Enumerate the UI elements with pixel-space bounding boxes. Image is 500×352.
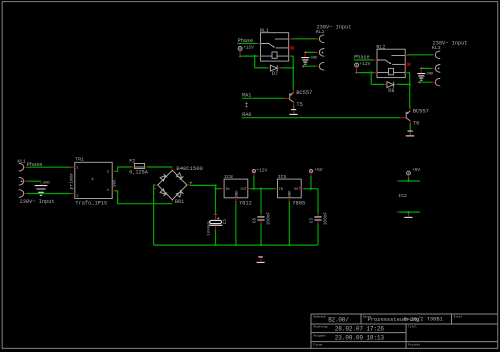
svg-text:T5: T5: [296, 102, 302, 108]
svg-text:T6: T6: [413, 121, 419, 127]
svg-text:230V~ Input: 230V~ Input: [20, 199, 55, 205]
svg-text:Phase: Phase: [354, 54, 370, 60]
svg-text:Trafo_1P1S: Trafo_1P1S: [75, 201, 107, 207]
svg-text:F2: F2: [129, 159, 135, 165]
svg-text:GND: GND: [311, 57, 319, 61]
svg-text:7812: 7812: [239, 201, 252, 207]
svg-text:sek.: sek.: [112, 177, 117, 187]
svg-text:+5V: +5V: [314, 167, 323, 173]
svg-text:IN: IN: [279, 188, 283, 192]
svg-text:1000uF: 1000uF: [207, 221, 211, 236]
svg-text:BR1: BR1: [175, 199, 184, 205]
svg-text:Projekt: Projekt: [408, 342, 420, 346]
svg-text:Blatt: Blatt: [454, 315, 463, 319]
svg-text:7805: 7805: [292, 201, 305, 207]
svg-text:TR1: TR1: [75, 156, 84, 162]
svg-text:C3: C3: [309, 218, 314, 224]
svg-text:primär: primär: [69, 172, 75, 189]
svg-text:IC5: IC5: [278, 174, 287, 180]
svg-text:BC557: BC557: [296, 90, 312, 96]
svg-text:KL2: KL2: [316, 29, 325, 35]
svg-text:D8: D8: [388, 88, 394, 94]
svg-text:23.09.09 18:13: 23.09.09 18:13: [335, 335, 385, 342]
svg-text:5-16/2 T30B1: 5-16/2 T30B1: [404, 317, 443, 323]
svg-text:+12V: +12V: [243, 44, 254, 50]
svg-text:B2.00/: B2.00/: [328, 316, 349, 323]
svg-text:B40C1500: B40C1500: [176, 165, 202, 172]
svg-text:C8: C8: [252, 218, 257, 224]
svg-text:+12V: +12V: [256, 168, 267, 174]
svg-text:Phase: Phase: [27, 162, 43, 168]
svg-text:Maßstab: Maßstab: [314, 314, 326, 318]
svg-text:GND: GND: [235, 190, 239, 198]
svg-text:0,125A: 0,125A: [129, 169, 149, 175]
svg-text:28.02.07 17:26: 28.02.07 17:26: [335, 325, 385, 332]
svg-text:+12V: +12V: [359, 61, 370, 67]
svg-text:BC557: BC557: [413, 109, 429, 115]
svg-text:IC8: IC8: [224, 174, 233, 180]
svg-text:GND: GND: [427, 73, 435, 77]
svg-text:RA1: RA1: [242, 93, 251, 99]
svg-text:OUT: OUT: [294, 188, 300, 192]
svg-text:Titel: Titel: [408, 325, 417, 329]
svg-text:IC2: IC2: [398, 193, 407, 199]
svg-text:Phase: Phase: [238, 38, 254, 44]
svg-text:C1: C1: [223, 218, 228, 224]
svg-text:KL3: KL3: [432, 45, 441, 51]
svg-text:Firma: Firma: [314, 343, 323, 347]
svg-text:100nF: 100nF: [324, 212, 329, 226]
svg-text:D7: D7: [272, 71, 278, 77]
svg-text:GND: GND: [289, 190, 293, 198]
svg-text:OUT: OUT: [241, 188, 247, 192]
svg-text:IN: IN: [225, 188, 229, 192]
svg-text:Ausgabe: Ausgabe: [314, 333, 326, 337]
svg-text:+5V: +5V: [412, 167, 421, 173]
svg-text:Änderung: Änderung: [314, 325, 328, 329]
svg-text:100nF: 100nF: [267, 212, 272, 226]
